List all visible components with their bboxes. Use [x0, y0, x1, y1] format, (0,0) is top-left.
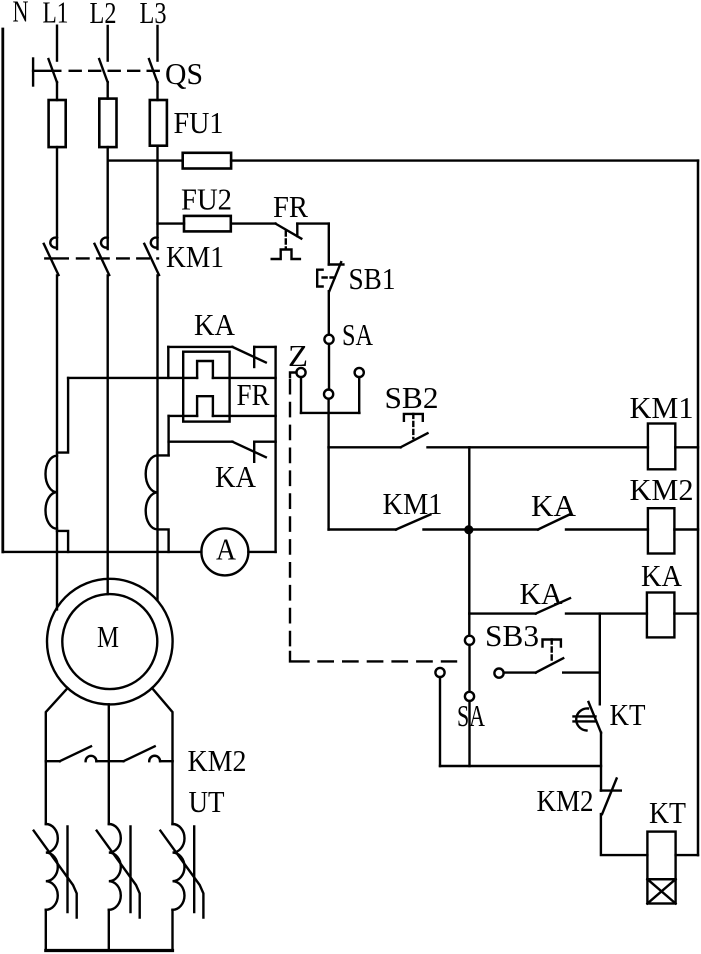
contactor KM1 main contact pole 1 hook [50, 238, 57, 248]
relay KA NO contact blade (lower row) [536, 598, 570, 613]
autotransformer UT core bar 3 [193, 827, 195, 913]
relay KA NO contact blade (middle row) [538, 515, 570, 530]
selector SA lower bottom terminal circle [465, 692, 474, 701]
contactor KM1 main contact pole 3 blade [144, 244, 159, 275]
svg-text:KT: KT [649, 795, 686, 830]
thermal relay FR heater block rectangle [183, 352, 229, 422]
current transformer coil right (on L3) [146, 455, 169, 552]
timer KT delay semicircle [576, 708, 588, 730]
svg-text:SA: SA [457, 698, 485, 733]
fuse control branch (FU1 row) [183, 153, 231, 169]
fuse FU2 [184, 216, 231, 232]
timer KT delay chord lines [574, 716, 596, 721]
pushbutton SB3 actuator [543, 640, 561, 647]
contactor KM2 shorting bus wire [46, 760, 173, 762]
wire UT winding 1 to star bar [45, 910, 47, 951]
pushbutton SB2 actuator dashed link [412, 414, 414, 438]
fuse FU1 pole 1 [49, 100, 66, 147]
contactor coil KM2 [648, 508, 675, 553]
wire FR to SB1 [328, 224, 330, 265]
thermal relay FR NC contact stop stub [296, 224, 298, 236]
wire L1 KM1 to motor [56, 276, 58, 610]
contactor KM1 mechanical dashed link [45, 257, 68, 259]
selector SA lower blade [468, 645, 470, 692]
svg-text:FR: FR [273, 189, 308, 224]
contactor KM2 main contact 2 blade [124, 746, 155, 761]
contactor KM2 main contact 1 blade [60, 746, 91, 761]
autotransformer UT slider arrow 3 [160, 831, 203, 918]
timer KT delay element box diagonals [647, 879, 675, 903]
autotransformer UT slider arrow 2 [97, 831, 140, 918]
contactor coil KM1 [648, 424, 675, 470]
wire KT contact down [600, 733, 602, 791]
wire UT winding 2 to star bar [108, 910, 110, 951]
wire phase 3 KM2 to UT [171, 761, 173, 824]
thermal relay FR heater element 1 wire [68, 377, 276, 379]
contactor KM1 main contact pole 3 hook [151, 238, 158, 248]
wire KA block middle vertical [167, 416, 169, 456]
autotransformer UT winding 2 [109, 824, 121, 910]
ammeter A circle [201, 528, 248, 575]
thermal relay FR trip dashed link [285, 232, 287, 249]
wire motor output left slant [46, 688, 68, 761]
wire L3 upper [156, 26, 158, 61]
pushbutton SB2 blade [401, 433, 428, 447]
svg-text:KT: KT [610, 697, 646, 732]
wire L2 KM1 to motor [106, 276, 108, 595]
wire L1 FU1 to KM1 [56, 147, 58, 249]
wire right rail vertical [697, 161, 700, 856]
thermal relay FR heater element 1 bump [197, 361, 213, 378]
pushbutton SB1 actuator [317, 270, 322, 287]
autotransformer UT winding 1 [46, 824, 58, 910]
thermal relay FR trip symbol [272, 250, 300, 260]
fuse FU1 pole 2 [99, 99, 116, 148]
wire phase 2 KM2 to UT [108, 761, 110, 824]
thermal relay FR NC contact blade [276, 224, 302, 239]
wire N vertical rail [1, 29, 4, 552]
svg-text:KA: KA [531, 488, 577, 523]
wire motor output right slant [152, 688, 172, 761]
wire FU2 branch from L3 [158, 222, 276, 224]
svg-text:M: M [97, 619, 119, 654]
contactor KM1 main contact pole 2 hook [101, 238, 108, 248]
node junction dot [464, 525, 473, 534]
svg-text:KM1: KM1 [166, 239, 224, 274]
autotransformer UT core bar 1 [66, 827, 68, 913]
svg-text:A: A [216, 532, 237, 567]
wire control branch from L2 to right rail [108, 159, 698, 161]
pushbutton SB1 blade [329, 262, 341, 291]
wire middle control vertical [468, 447, 470, 635]
node star-point bar [46, 949, 173, 952]
contactor KM1 aux NO contact blade [396, 515, 430, 530]
contactor KM1 main contact pole 1 blade [44, 244, 59, 275]
wire ammeter to right vertical [248, 551, 275, 553]
pushbutton SB3 actuator dashed link [551, 640, 553, 664]
svg-text:SB3: SB3 [485, 618, 539, 653]
wire left control vertical [327, 447, 329, 529]
svg-text:KM1: KM1 [383, 486, 443, 521]
selector SA upper blade [328, 344, 330, 390]
thermal relay FR heater element 2 wire [169, 415, 276, 417]
svg-text:KA: KA [520, 576, 564, 611]
autotransformer UT winding 3 [173, 824, 185, 910]
wire L2 between QS and FU1 [106, 82, 108, 99]
autotransformer UT core bar 2 [129, 827, 131, 913]
relay KA lower NC contact blade [232, 442, 265, 458]
svg-text:KA: KA [194, 307, 236, 342]
relay KA top NC contact blade [232, 347, 265, 363]
wire KA block left vertical [167, 347, 169, 378]
wire Z terminal down [300, 377, 302, 413]
wire L1 between QS and FU1 [56, 82, 58, 100]
svg-text:FU2: FU2 [181, 182, 232, 217]
wire SA lower left terminal down [439, 677, 441, 766]
fuse FU1 pole 3 [150, 100, 167, 146]
relay KA top NC contact stop stub [253, 347, 255, 367]
selector SA upper bottom terminal circle [324, 390, 333, 399]
pushbutton SB3 blade [536, 658, 564, 672]
svg-text:KM1: KM1 [630, 390, 694, 425]
contactor KM2 NC aux blade [602, 779, 617, 815]
timer KT delay element box [647, 879, 675, 903]
contactor KM1 main contact pole 2 blade [95, 244, 110, 275]
svg-text:SB1: SB1 [349, 261, 396, 296]
selector SA upper top terminal circle [324, 335, 333, 344]
wire KM1 aux row [329, 528, 648, 530]
autotransformer UT slider arrow 1 [34, 831, 77, 918]
svg-text:UT: UT [189, 784, 225, 819]
wire L3 between QS and FU1 [156, 82, 158, 100]
wire motor output middle [108, 704, 110, 761]
thermal relay FR NC contact output wire [297, 222, 329, 224]
svg-text:FR: FR [237, 377, 270, 412]
switch QS pole 2 blade [99, 59, 107, 82]
switch QS pole 3 blade [149, 59, 157, 82]
contactor KM2 NC aux stop stub [601, 789, 621, 791]
wire SA lower bottom bar [440, 765, 601, 767]
wire SA center down [327, 399, 329, 448]
switch QS handle bar [32, 59, 34, 86]
thermal relay FR heater element 2 bump [197, 396, 213, 416]
wire KM1 coil to right rail [675, 446, 698, 448]
relay KA top NC contact line [168, 346, 275, 348]
wire L3 FU1 to KM1 [156, 146, 158, 249]
pushbutton SB2 actuator [404, 414, 423, 421]
wire SA lower center down [468, 701, 470, 766]
contactor KM2 main contact 2 hook [149, 756, 160, 761]
contactor KM2 main contact 1 hook [86, 756, 97, 761]
wire L3 KM1 to motor [156, 276, 158, 600]
svg-text:L2: L2 [90, 0, 117, 30]
svg-text:Z: Z [288, 338, 308, 373]
wire N to ammeter (bottom horizontal) [3, 551, 202, 553]
current transformer coil left (on L1) [46, 378, 69, 552]
wire SB2 row [329, 446, 648, 448]
svg-text:KM2: KM2 [630, 472, 694, 507]
selector SA mechanical dashed linkage [290, 373, 296, 378]
wire L2 upper [106, 26, 108, 61]
wire KA row to KT contact [599, 614, 601, 705]
svg-text:N: N [13, 0, 29, 28]
svg-text:FU1: FU1 [174, 105, 224, 140]
node Z terminal circle [296, 368, 305, 377]
wire KT coil to right rail [676, 854, 698, 856]
svg-text:SB2: SB2 [385, 380, 439, 415]
svg-text:QS: QS [165, 56, 203, 91]
svg-text:KA: KA [641, 558, 683, 593]
timer KT delayed contact blade [589, 702, 602, 733]
switch QS pole 1 blade [49, 59, 57, 82]
wire SA upper bottom bar [301, 412, 359, 414]
wire phase 1 KM2 to UT [45, 761, 47, 824]
wire KM2 NC aux down [601, 814, 648, 855]
svg-text:SA: SA [342, 317, 373, 352]
timer coil KT [647, 832, 675, 880]
wire UT winding 3 to star bar [171, 910, 173, 951]
selector SA lower top terminal circle [465, 636, 474, 645]
wire KA coil to right rail [674, 612, 698, 614]
relay coil KA [647, 593, 675, 638]
svg-text:KM2: KM2 [537, 783, 594, 818]
relay KA lower NC contact line [169, 441, 276, 443]
svg-text:L1: L1 [43, 0, 69, 29]
svg-text:KM2: KM2 [188, 743, 247, 778]
selector SA upper right terminal circle [355, 368, 364, 377]
wire L1 upper [56, 26, 58, 61]
wire SB3 row [504, 671, 600, 673]
wire SB1 to SA [328, 291, 330, 335]
switch QS mechanical dashed link [33, 70, 60, 72]
wire KM2 coil to right rail [674, 528, 698, 530]
motor M inner circle [62, 594, 157, 689]
wire KA block right vertical [274, 347, 276, 552]
wire KA row [469, 612, 647, 614]
pushbutton SB1 NC stop stub [329, 263, 344, 265]
pushbutton SB3 terminal circle [494, 669, 503, 678]
pushbutton SB1 actuator dashed link [323, 276, 336, 278]
svg-text:L3: L3 [140, 0, 167, 30]
wire L2 FU1 to KM1 [106, 147, 108, 249]
svg-text:KA: KA [215, 459, 257, 494]
motor M outer circle [47, 579, 173, 705]
relay KA lower NC contact stop stub [253, 442, 255, 462]
wire SA right terminal down [358, 377, 360, 413]
selector SA lower left terminal circle [435, 668, 444, 677]
